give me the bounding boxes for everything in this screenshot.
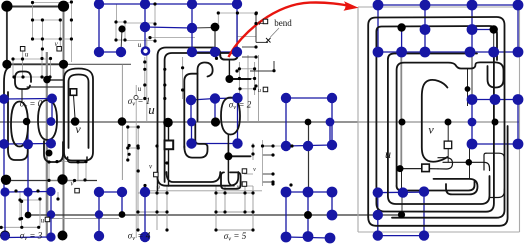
svg-text:u: u [138, 41, 142, 49]
svg-text:u: u [138, 85, 142, 93]
svg-text:σν​ = 4: σν​ = 4 [128, 231, 151, 243]
svg-text:u: u [385, 147, 391, 161]
svg-text:v: v [428, 123, 434, 137]
svg-text:u: u [25, 51, 29, 59]
svg-text:σν​ = 3: σν​ = 3 [20, 231, 43, 243]
svg-text:u: u [41, 217, 45, 225]
svg-text:v: v [75, 122, 81, 136]
svg-text:u: u [148, 102, 155, 117]
svg-text:σν​ = 5: σν​ = 5 [224, 231, 247, 243]
svg-text:σν​ = 2: σν​ = 2 [229, 100, 252, 112]
svg-text:σν​ = 1: σν​ = 1 [128, 96, 150, 108]
svg-text:u: u [258, 88, 261, 94]
svg-text:u: u [237, 185, 240, 191]
svg-text:v: v [253, 167, 256, 173]
svg-text:u: u [157, 185, 160, 191]
svg-text:σν​ = 0: σν​ = 0 [20, 99, 43, 111]
svg-text:bend: bend [274, 18, 292, 28]
